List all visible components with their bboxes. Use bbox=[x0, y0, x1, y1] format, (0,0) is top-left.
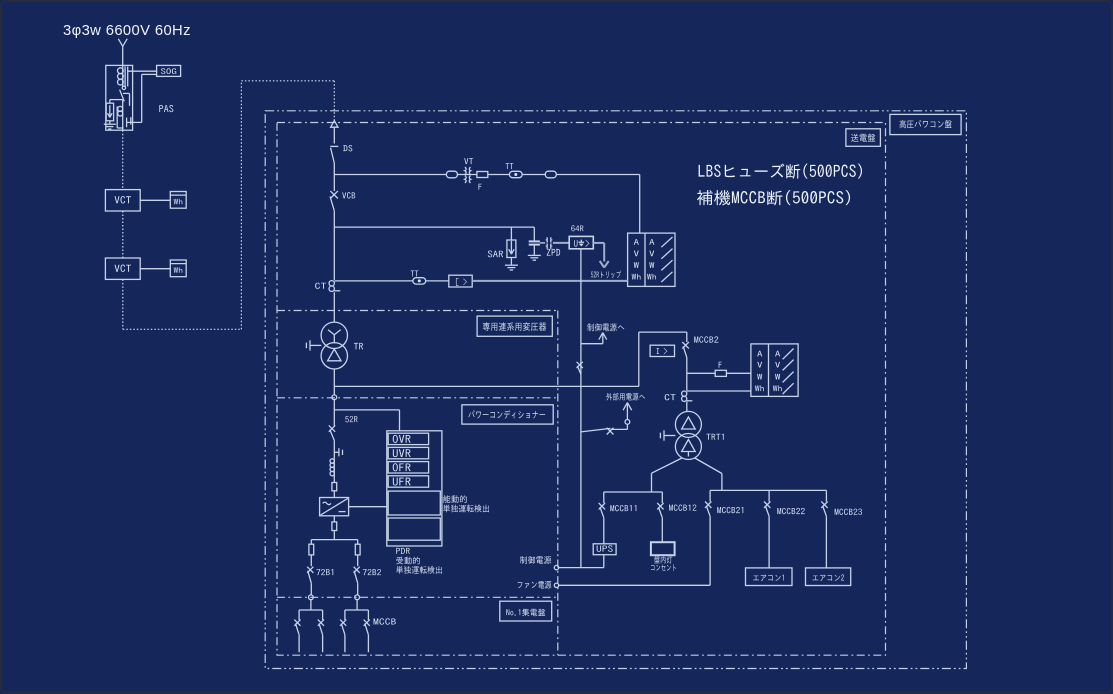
label F bbox=[479, 184, 482, 190]
label VCT bbox=[115, 264, 131, 271]
label No.1 panel bbox=[506, 609, 545, 617]
wire bbox=[333, 369, 335, 386]
relay UVR box bbox=[388, 447, 428, 458]
meter1 slash bbox=[661, 249, 672, 259]
node fan power bbox=[554, 583, 558, 587]
meter2 right A bbox=[775, 351, 780, 357]
wire bbox=[333, 531, 335, 540]
node bus junction bbox=[333, 175, 335, 192]
wire bbox=[333, 516, 335, 522]
wire 64R sense bbox=[580, 248, 582, 343]
relay passive detect box bbox=[388, 518, 440, 540]
wire bbox=[686, 402, 688, 412]
breaker MCCB23 bbox=[821, 502, 827, 508]
meter2 slash bbox=[783, 383, 794, 394]
wire bbox=[457, 174, 476, 176]
node junction bbox=[355, 595, 360, 600]
surge arrester SAR bbox=[507, 240, 516, 258]
wire bbox=[768, 516, 770, 568]
label soudenban bbox=[851, 134, 875, 142]
wire bbox=[426, 280, 449, 282]
wire bbox=[357, 555, 359, 566]
wire bbox=[333, 440, 335, 458]
wire to meter W bbox=[687, 372, 715, 374]
label active bbox=[443, 495, 467, 503]
wire bbox=[825, 490, 827, 501]
meter1 left Wh bbox=[632, 274, 641, 280]
label to control power bbox=[587, 323, 624, 331]
label ZPD bbox=[547, 249, 560, 256]
fuse F bbox=[477, 172, 488, 178]
wire bbox=[140, 199, 170, 201]
headline LBS bbox=[699, 163, 862, 178]
label aircon2 bbox=[812, 574, 844, 581]
fuse 72B1 bbox=[309, 544, 314, 555]
relay box I> bbox=[650, 345, 674, 356]
label DS bbox=[343, 145, 352, 151]
label 72B1 bbox=[316, 569, 333, 575]
load box aircon2 bbox=[806, 568, 851, 586]
label OC relay bbox=[456, 278, 459, 286]
label UVR bbox=[393, 449, 411, 457]
label 64R bbox=[571, 225, 583, 231]
meter1 slash bbox=[661, 260, 672, 270]
transformer TRT1 wye circle bbox=[675, 434, 701, 460]
wire bbox=[603, 492, 605, 503]
label TR enclosure bbox=[483, 322, 546, 331]
label VCB bbox=[342, 192, 355, 198]
enclosure TR bottom border bbox=[277, 397, 558, 399]
load box aircon1 bbox=[746, 568, 793, 586]
wire bbox=[333, 211, 335, 227]
wire bbox=[638, 332, 640, 386]
label Wh bbox=[174, 199, 183, 204]
label OFR bbox=[393, 463, 411, 471]
label PAS bbox=[159, 105, 173, 112]
label TT bbox=[411, 270, 419, 276]
wire bbox=[522, 174, 545, 176]
wire arrow bbox=[626, 403, 628, 420]
wire bbox=[333, 163, 335, 175]
label PDR bbox=[396, 548, 410, 554]
wire bbox=[661, 492, 663, 503]
wire bbox=[825, 516, 827, 568]
switch MCCB d bbox=[364, 620, 370, 626]
ground bbox=[104, 123, 116, 125]
transformer TRT1 delta circle bbox=[675, 411, 701, 437]
PAS contact pivot bbox=[122, 86, 125, 89]
meter2 left W bbox=[757, 374, 762, 380]
coupling coil ZPD bbox=[546, 237, 549, 242]
wire dotted route to DS bbox=[122, 279, 124, 329]
enclosure PCS bottom border bbox=[277, 596, 558, 598]
label passive bbox=[396, 557, 420, 565]
relay UFR box bbox=[388, 476, 428, 487]
wire to meter bbox=[556, 174, 640, 176]
wire bbox=[510, 227, 512, 240]
wire bbox=[298, 610, 300, 620]
TR wye symbol bbox=[333, 335, 335, 344]
breaker MCCB12 bbox=[657, 503, 663, 509]
switch 72B1 bbox=[307, 567, 313, 573]
wire bbox=[768, 490, 770, 501]
wire bus bbox=[334, 226, 534, 228]
meter2 left A bbox=[757, 351, 762, 357]
switch MCCB b bbox=[318, 620, 324, 626]
wire bbox=[298, 635, 300, 653]
breaker MCCB21 bbox=[705, 502, 711, 508]
surge arrester in PAS bbox=[109, 100, 111, 104]
meter2 left Wh bbox=[755, 385, 764, 391]
enclosure right divider bbox=[557, 311, 559, 656]
fuse bbox=[332, 483, 337, 491]
TR neutral ground bbox=[310, 344, 321, 346]
arrowhead up bbox=[623, 403, 627, 411]
label MCCB21 bbox=[717, 507, 743, 513]
transformer TR wye circle bbox=[321, 322, 347, 348]
meter Wh 1 bbox=[170, 192, 186, 209]
wire bbox=[661, 518, 663, 543]
relay OVR box bbox=[388, 433, 428, 444]
TRT1 delta symbol bbox=[682, 417, 696, 429]
enclosure high-voltage panel (dash-dot-dot) bbox=[265, 111, 966, 669]
label TRT1 bbox=[706, 434, 723, 440]
wire bbox=[140, 268, 170, 270]
wire bbox=[533, 245, 535, 256]
capacitor ZPD bbox=[529, 240, 540, 242]
wire control feeder bbox=[580, 344, 582, 568]
enclosure TR top border bbox=[277, 310, 558, 312]
switch 72B2 bbox=[354, 567, 360, 573]
label UFR bbox=[393, 478, 411, 486]
breaker MCCB2 bbox=[682, 342, 689, 349]
label active2 bbox=[443, 505, 489, 513]
label box TR enclosure bbox=[477, 316, 552, 336]
meter1 right V bbox=[649, 251, 654, 257]
label VCT bbox=[115, 196, 131, 203]
label outlet bbox=[651, 564, 676, 571]
label MCCB22 bbox=[777, 508, 804, 514]
UPS box bbox=[593, 544, 616, 555]
relay OFR box bbox=[388, 462, 428, 473]
meter2 slash bbox=[783, 349, 794, 360]
label box No.1 panel bbox=[500, 601, 552, 621]
wire bbox=[510, 258, 512, 265]
wire bbox=[333, 292, 335, 322]
fuse 72B2 bbox=[355, 544, 360, 555]
relay active detect box bbox=[388, 491, 440, 515]
PAS switch blade bbox=[120, 90, 125, 102]
wire bbox=[709, 490, 711, 501]
label VT bbox=[464, 158, 473, 164]
wire to control power bbox=[581, 343, 603, 345]
VCT box 1 bbox=[105, 190, 140, 211]
relay 64R box bbox=[569, 236, 593, 248]
meter1 left V bbox=[634, 251, 639, 257]
label MCCB11 bbox=[610, 505, 636, 511]
wire bbox=[686, 373, 688, 390]
switch on feeder bbox=[577, 362, 583, 368]
wire HV bus bbox=[334, 174, 446, 176]
wire bbox=[533, 227, 535, 241]
wire bbox=[344, 635, 346, 653]
breaker MCCB22 bbox=[764, 502, 770, 508]
load box lamp outlet bbox=[651, 542, 675, 555]
wire relay feed bbox=[334, 409, 399, 411]
node triangle at DS input bbox=[331, 121, 338, 128]
wire dotted from PAS bbox=[122, 130, 124, 189]
meter1 right Wh bbox=[647, 274, 656, 280]
wire bbox=[110, 99, 123, 101]
label box high-voltage panel bbox=[890, 114, 961, 134]
enclosure soudenban (dash-dot) bbox=[277, 123, 886, 656]
label OVR bbox=[393, 435, 411, 443]
label fan power bbox=[518, 581, 552, 589]
wire SOG control bbox=[127, 121, 142, 123]
wire bbox=[357, 540, 359, 545]
wire bbox=[310, 600, 312, 610]
TRT1 neutral ground bbox=[664, 435, 675, 437]
wire LV bus left bbox=[604, 491, 663, 493]
node control power bbox=[554, 565, 558, 569]
wire branch bus bbox=[299, 609, 323, 611]
meter1 left W bbox=[634, 262, 639, 268]
wire bbox=[333, 400, 335, 426]
wire bbox=[310, 540, 312, 545]
label high-voltage panel bbox=[900, 120, 952, 128]
PAS sensing VT bbox=[118, 106, 123, 111]
label Wh bbox=[174, 267, 183, 272]
meter2 slash bbox=[783, 372, 794, 383]
meter panel 2 bbox=[751, 344, 798, 397]
label 52R trip bbox=[591, 271, 621, 279]
switch MCCB c bbox=[340, 620, 346, 626]
wire CT to meter bbox=[687, 390, 751, 392]
meter2 right Wh bbox=[773, 385, 782, 391]
label TR bbox=[354, 343, 363, 349]
wire CT secondary bbox=[334, 280, 413, 282]
label UPS bbox=[597, 545, 613, 552]
meter2 right V bbox=[775, 362, 780, 368]
TR delta symbol bbox=[328, 349, 341, 361]
wire thick bbox=[472, 280, 627, 282]
inverter box bbox=[320, 498, 349, 516]
label aircon1 bbox=[753, 575, 784, 582]
wire bbox=[686, 357, 688, 373]
wire bbox=[367, 635, 369, 653]
meter1 left A bbox=[634, 239, 639, 245]
fuse F bbox=[715, 370, 726, 376]
SOG relay box bbox=[157, 65, 181, 76]
test terminal TT bbox=[413, 278, 426, 284]
svg-text:3φ3w 6600V 60Hz: 3φ3w 6600V 60Hz bbox=[63, 23, 191, 39]
TRT1 star symbol bbox=[682, 440, 696, 452]
wire bbox=[310, 555, 312, 566]
node circle bbox=[625, 420, 630, 425]
label CT bbox=[315, 283, 326, 289]
wire bbox=[357, 583, 359, 595]
label F bbox=[719, 362, 722, 368]
wire bbox=[488, 174, 510, 176]
wire bbox=[686, 332, 688, 342]
VCT box 2 bbox=[105, 258, 140, 279]
wire bbox=[322, 635, 324, 653]
label gt in 64R bbox=[586, 240, 590, 248]
disconnect switch DS bbox=[330, 145, 338, 147]
fuse bbox=[446, 171, 457, 178]
label MCCB bbox=[374, 618, 396, 624]
label lamp bbox=[654, 556, 672, 563]
label 72B2 bbox=[363, 569, 381, 575]
node on border bbox=[333, 386, 335, 395]
label U in 64R bbox=[574, 240, 577, 246]
wire bbox=[122, 46, 124, 65]
meter2 right W bbox=[775, 374, 780, 380]
wire bbox=[695, 458, 722, 474]
wire LV bus right bbox=[710, 489, 826, 491]
label to external power bbox=[606, 393, 645, 401]
current transformer CT bbox=[329, 281, 334, 286]
meter panel 1 bbox=[628, 233, 675, 286]
meter1 slash bbox=[661, 237, 672, 247]
wire bbox=[603, 555, 605, 568]
meter Wh 2 bbox=[170, 260, 186, 277]
transformer TR delta circle bbox=[321, 343, 347, 369]
switch MCCB a bbox=[294, 620, 300, 626]
label CT bbox=[665, 394, 676, 400]
label 52R bbox=[345, 416, 357, 422]
label TT bbox=[506, 163, 514, 169]
breaker MCCB11 bbox=[599, 503, 605, 509]
label I> bbox=[657, 348, 659, 354]
test terminal TT bbox=[509, 171, 522, 177]
label control power bbox=[520, 556, 551, 564]
wire bbox=[310, 583, 312, 595]
current transformer CT bbox=[682, 391, 687, 396]
wire bbox=[356, 600, 358, 610]
label MCCB12 bbox=[669, 504, 696, 510]
node junction bbox=[309, 595, 314, 600]
arrowhead up bbox=[599, 333, 603, 340]
meter1 right A bbox=[649, 239, 654, 245]
label PCS bbox=[468, 410, 545, 418]
wire bbox=[603, 518, 605, 544]
wire bbox=[709, 516, 711, 585]
ground bbox=[505, 264, 518, 266]
reactor coil bbox=[330, 459, 334, 463]
wire bbox=[344, 610, 346, 620]
transformer VT bbox=[465, 167, 466, 174]
wire bbox=[333, 127, 335, 143]
meter2 slash bbox=[783, 360, 794, 371]
wire to SOG bbox=[127, 70, 156, 72]
wire bbox=[726, 372, 751, 374]
relay block box bbox=[387, 431, 442, 546]
wire bbox=[333, 491, 335, 498]
breaker VCB bbox=[330, 191, 338, 199]
wire bbox=[367, 610, 369, 620]
fuse bbox=[332, 522, 337, 531]
label SOG bbox=[161, 68, 176, 74]
wire bbox=[333, 227, 335, 280]
arrowhead bbox=[600, 261, 605, 268]
wire bbox=[652, 458, 683, 473]
meter1 slash bbox=[661, 272, 672, 282]
meter1 right W bbox=[649, 262, 654, 268]
wire bbox=[322, 610, 324, 620]
wire split bus bbox=[311, 539, 357, 541]
label MCCB23 bbox=[835, 509, 862, 515]
wire branch bus bbox=[345, 609, 369, 611]
relay OC box bbox=[449, 275, 472, 287]
label MCCB2 bbox=[694, 336, 718, 342]
PAS link wire bbox=[123, 92, 130, 94]
wire TR output bbox=[334, 385, 639, 387]
ground bbox=[528, 254, 541, 256]
meter2 left V bbox=[757, 362, 762, 368]
switch PAS enclosure box bbox=[106, 65, 133, 130]
label box soudenban bbox=[846, 129, 881, 147]
wire to external power bbox=[581, 428, 611, 432]
earth mark in 64R bbox=[580, 240, 582, 242]
incoming feeder arrow bbox=[118, 39, 122, 47]
label SAR bbox=[488, 251, 503, 258]
label passive2 bbox=[396, 566, 442, 574]
wire 52R trip bbox=[593, 242, 604, 244]
wire bbox=[333, 476, 335, 483]
label box PCS bbox=[462, 405, 553, 424]
PAS ZCT coil bbox=[124, 67, 126, 87]
wire dotted bbox=[122, 211, 124, 258]
contact 52R aux bbox=[334, 451, 339, 453]
switch 52R bbox=[329, 425, 335, 431]
wire inverter to relays bbox=[349, 506, 387, 508]
fuse bbox=[545, 171, 556, 178]
headline MCCB bbox=[697, 190, 850, 205]
